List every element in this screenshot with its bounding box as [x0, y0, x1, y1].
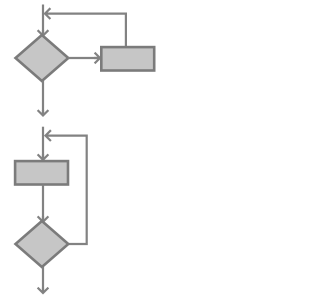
wire process P2 to decision D2	[42, 185, 44, 220]
wire loop-back from process P1 top to entry line	[46, 14, 126, 46]
wire exit from decision D1	[42, 81, 44, 113]
wire exit from decision D2	[42, 267, 44, 291]
process P2 (bottom rectangle)	[15, 161, 68, 184]
wire entry line into process P2	[42, 127, 44, 158]
arrowhead into decision D1	[38, 30, 49, 36]
arrowhead into decision D2	[38, 216, 49, 222]
process P1 (top rectangle)	[101, 47, 154, 70]
decision D1 (top diamond)	[16, 35, 69, 81]
arrowhead exit of chart 2	[38, 288, 49, 294]
wire decision D1 to process P1	[68, 57, 98, 59]
wire entry line into top decision	[42, 5, 44, 34]
arrowhead into process P1	[94, 53, 100, 64]
decision D2 (bottom diamond)	[16, 221, 69, 267]
arrowhead loop-back left into entry line 2	[46, 130, 51, 141]
arrowhead into process P2	[38, 154, 49, 160]
arrowhead exit of chart 1	[38, 110, 49, 116]
wire loop-back from decision D2 right vertex up to entry line 2	[47, 136, 87, 244]
arrowhead loop-back left into entry line	[45, 8, 50, 19]
